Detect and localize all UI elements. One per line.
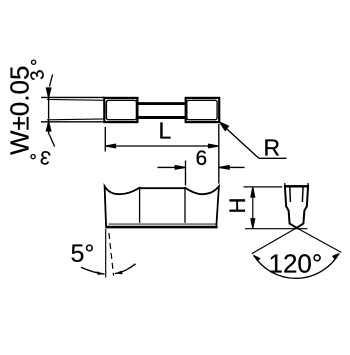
front view outline — [105, 186, 219, 227]
svg-text:120°: 120° — [269, 249, 323, 279]
taper line top (3 deg) — [47, 98, 107, 101]
6 extension line — [185, 161, 187, 186]
L extension line right / projection — [218, 124, 220, 184]
5 deg solid extension line — [105, 229, 107, 278]
120 deg arc arrow right — [332, 253, 340, 260]
svg-text:5°: 5° — [71, 240, 95, 268]
svg-text:H: H — [225, 198, 250, 214]
120 deg arc arrow left — [253, 254, 261, 261]
end view inner taper line left — [289, 187, 292, 202]
right block inner contour — [187, 100, 217, 119]
front view groove edge left — [139, 187, 141, 223]
svg-text:R: R — [264, 135, 281, 161]
120 deg arc — [254, 254, 339, 279]
middle shank top edge — [137, 102, 187, 105]
left end block — [104, 98, 137, 122]
front view groove edge right — [184, 187, 186, 222]
right end block — [186, 98, 220, 122]
end view corner tick right — [307, 183, 309, 187]
svg-text:L: L — [159, 118, 172, 144]
taper line bottom (3 deg) — [47, 118, 107, 121]
end view outline — [285, 186, 308, 228]
extension line top (W) — [41, 96, 105, 98]
L dimension line — [106, 144, 219, 147]
H top extension line — [244, 186, 283, 188]
svg-text:6: 6 — [196, 147, 208, 170]
left block inner contour — [106, 100, 136, 119]
5 deg arc with arrows — [81, 264, 136, 274]
H dimension line — [251, 187, 255, 228]
120 deg extension line right — [297, 228, 342, 253]
front view thick bottom edge — [106, 226, 218, 229]
front view inner bottom line — [109, 223, 216, 225]
end view corner tick left — [284, 183, 286, 187]
5 deg dashed line — [109, 233, 114, 276]
end view top edge thick — [284, 185, 309, 187]
W dimension line assembly — [46, 75, 54, 147]
middle shank bottom edge — [137, 116, 187, 119]
120 deg extension line left — [252, 228, 297, 254]
H bottom extension line — [245, 228, 308, 230]
extension line bottom (W) — [41, 121, 105, 123]
6 dimension line — [158, 166, 245, 169]
end view inner taper line right — [301, 187, 304, 202]
R leader — [220, 122, 287, 158]
L extension line left — [104, 127, 106, 152]
